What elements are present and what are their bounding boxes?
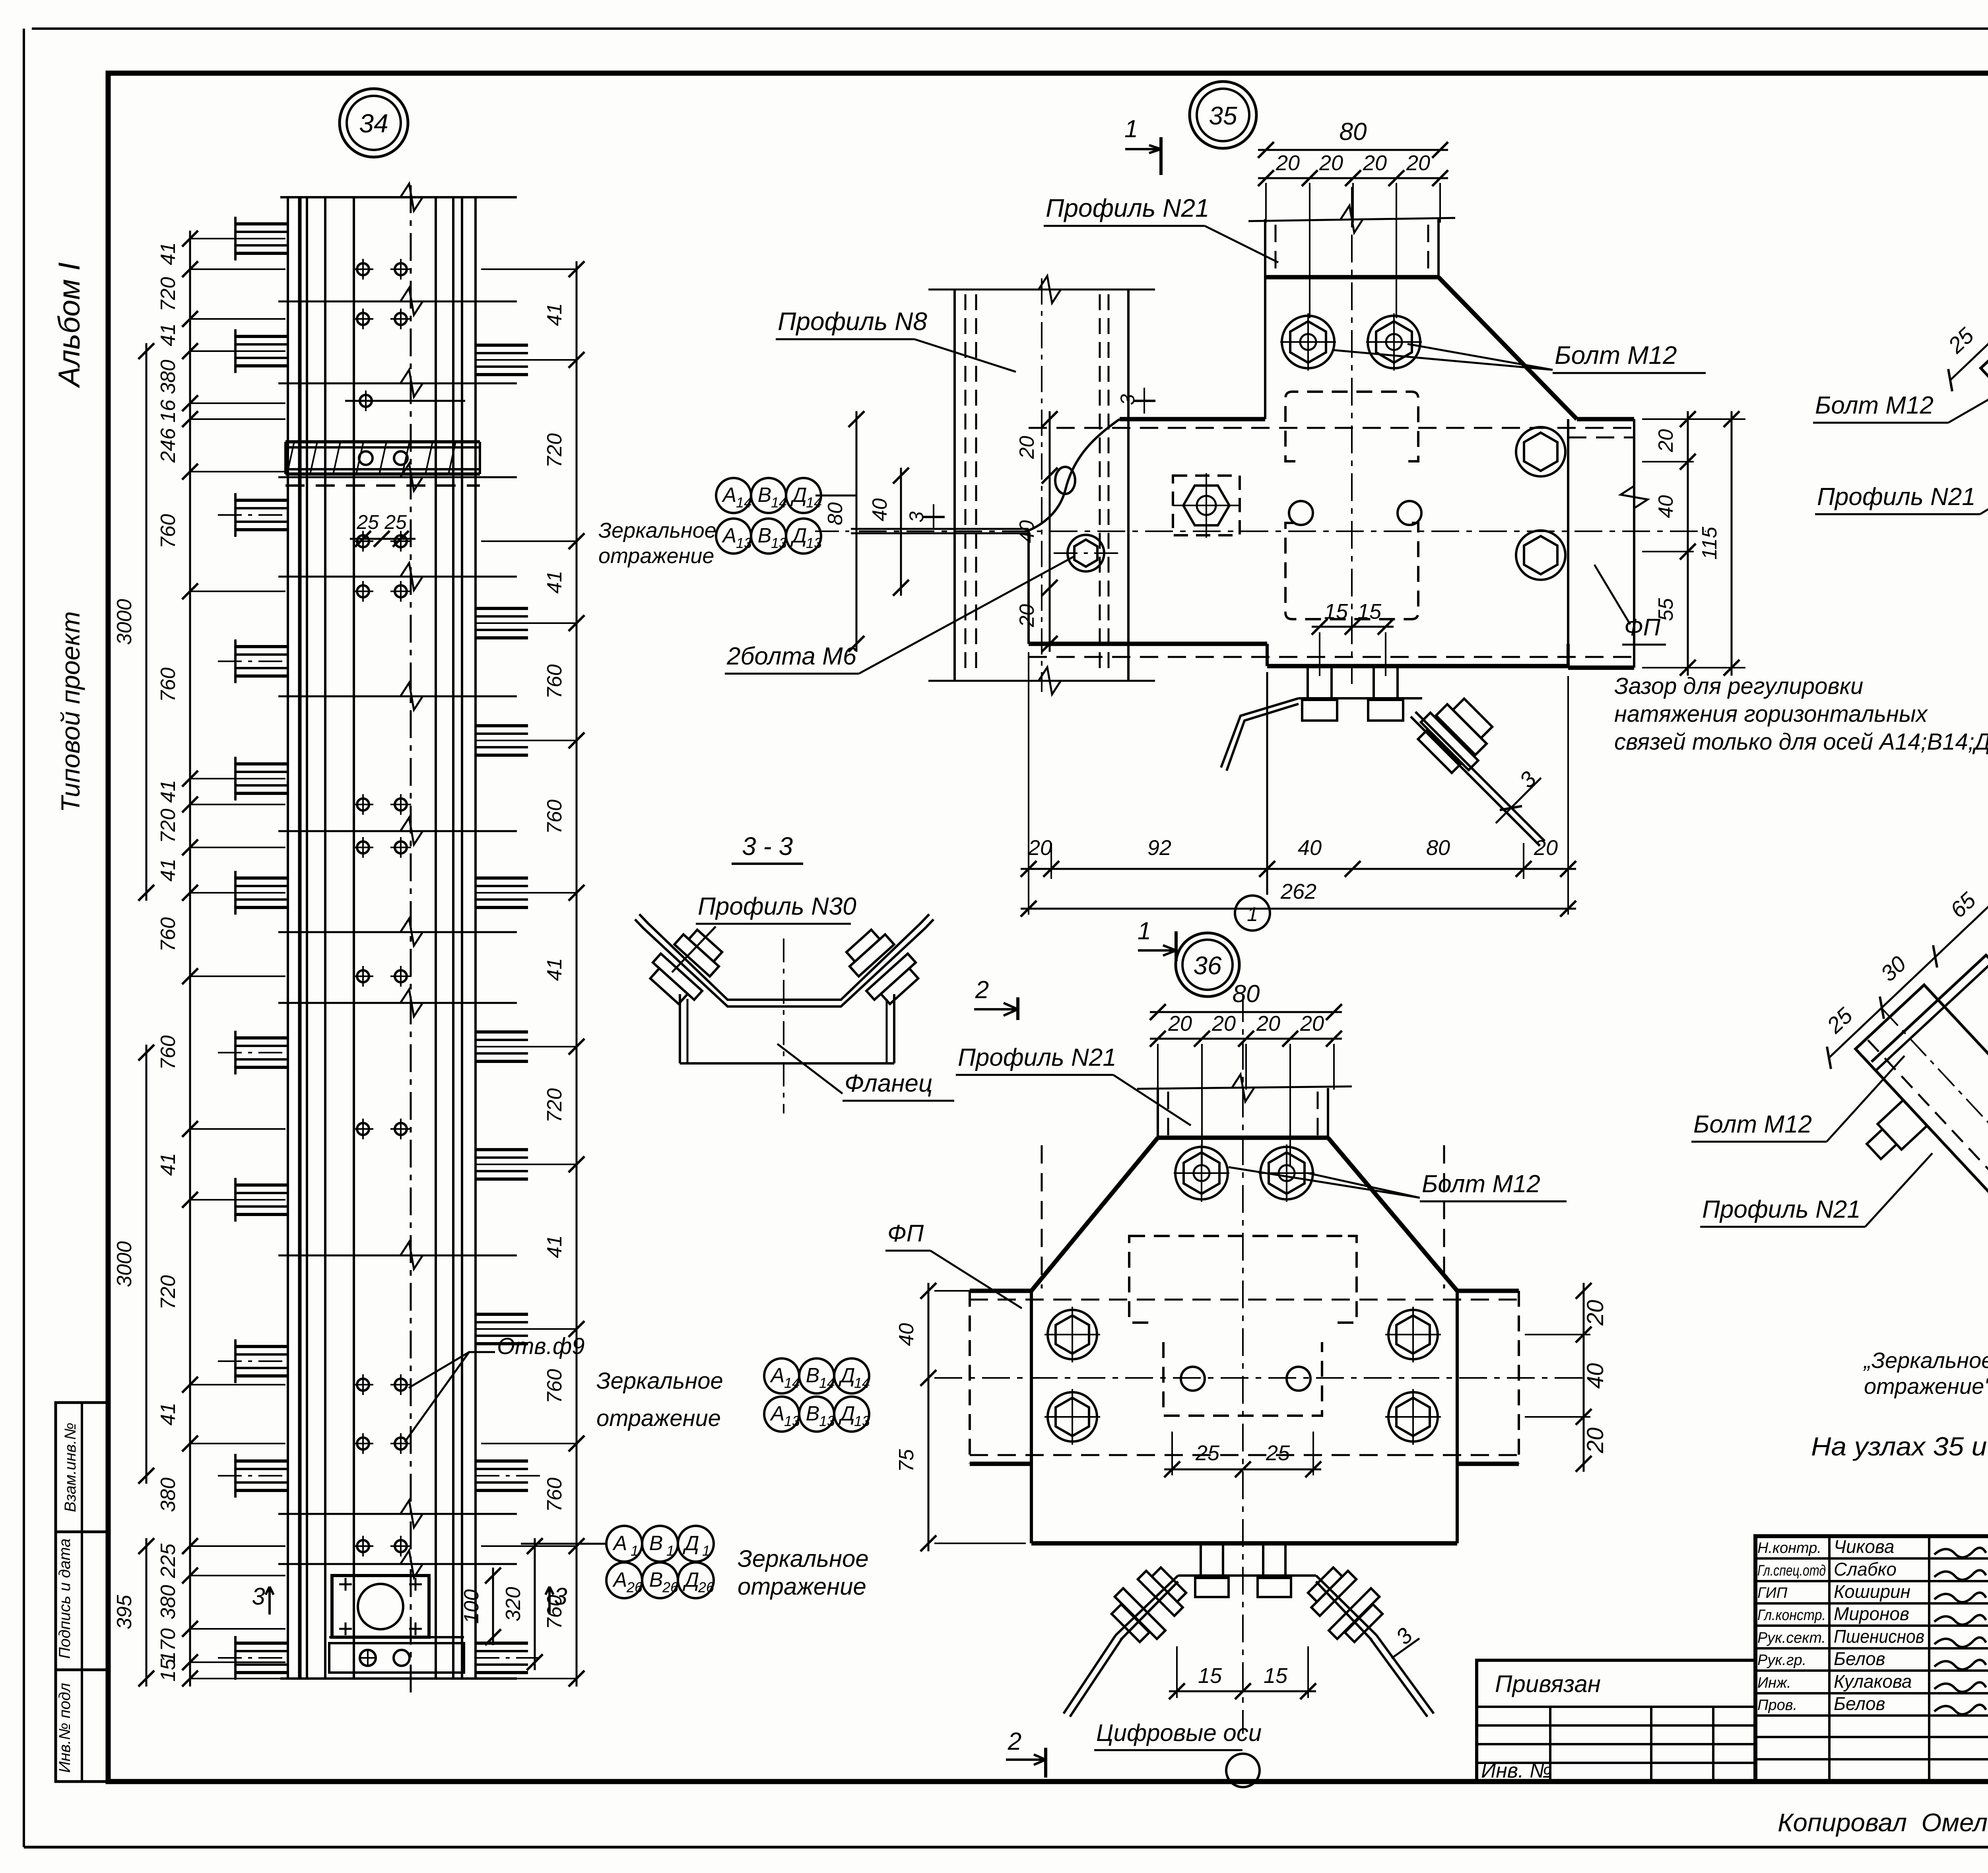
member 34 bottom fitting bbox=[329, 1643, 464, 1673]
svg-text:На узлах 35 и 36 лотки условно: На узлах 35 и 36 лотки условно не показа… bbox=[1811, 1432, 1988, 1461]
svg-text:40: 40 bbox=[868, 498, 891, 521]
svg-text:1: 1 bbox=[1247, 903, 1258, 925]
svg-text:2: 2 bbox=[975, 976, 989, 1004]
node 36 hidden dashed bbox=[970, 1299, 1519, 1301]
svg-text:Зазор для регулировки: Зазор для регулировки bbox=[1614, 673, 1863, 699]
node 35 bottom chain bbox=[1021, 868, 1576, 870]
svg-text:34: 34 bbox=[359, 109, 388, 138]
svg-text:20: 20 bbox=[1168, 1012, 1192, 1036]
svg-text:Профиль N21: Профиль N21 bbox=[1702, 1196, 1861, 1223]
svg-text:Д: Д bbox=[790, 484, 807, 507]
svg-text:1: 1 bbox=[1124, 115, 1138, 143]
left filing strip table bbox=[56, 1403, 108, 1782]
stub R@3342 bbox=[476, 1313, 528, 1316]
svg-text:760: 760 bbox=[157, 917, 180, 952]
svg-text:20: 20 bbox=[1028, 836, 1052, 860]
node 34 right dim chain C bbox=[576, 261, 578, 1686]
dim 320 / 100 bottom right of member bbox=[534, 1538, 536, 1670]
svg-text:720: 720 bbox=[543, 1088, 566, 1123]
svg-text:26: 26 bbox=[626, 1579, 643, 1595]
stub L@883 bbox=[235, 335, 288, 338]
svg-text:41: 41 bbox=[157, 1403, 180, 1426]
stub L@3017 bbox=[235, 1183, 288, 1187]
svg-text:40: 40 bbox=[1582, 1363, 1608, 1389]
svg-text:отражение: отражение bbox=[598, 544, 714, 568]
svg-text:41: 41 bbox=[157, 780, 180, 803]
svg-text:41: 41 bbox=[157, 323, 180, 346]
node 36 bottom studs strap bbox=[1200, 1543, 1202, 1576]
node 36 left chain 40/75 bbox=[928, 1283, 930, 1551]
node 35 right chains bbox=[1687, 411, 1689, 676]
svg-text:Миронов: Миронов bbox=[1834, 1603, 1909, 1624]
node 35 profile N21 top bbox=[1264, 219, 1266, 277]
svg-text:80: 80 bbox=[1426, 836, 1450, 860]
svg-text:Кулакова: Кулакова bbox=[1834, 1671, 1912, 1692]
title block bbox=[1755, 1536, 1988, 1782]
svg-text:Профиль N8: Профиль N8 bbox=[778, 307, 927, 336]
svg-text:41: 41 bbox=[543, 303, 566, 326]
node 35 bottom studs and strap bbox=[1307, 666, 1309, 700]
member 34 outline verticals bbox=[287, 197, 289, 1679]
svg-text:20: 20 bbox=[1319, 151, 1343, 175]
svg-text:Цифровые оси: Цифровые оси bbox=[1096, 1720, 1262, 1746]
U-bolt clamp on rod bbox=[1411, 689, 1502, 780]
svg-text:Профиль N30: Профиль N30 bbox=[698, 893, 856, 920]
svg-text:92: 92 bbox=[1147, 836, 1171, 860]
svg-text:Зеркальное: Зеркальное bbox=[598, 519, 716, 542]
node 35 left chains bbox=[1049, 411, 1051, 652]
svg-text:Подпись и дата: Подпись и дата bbox=[56, 1539, 74, 1659]
svg-text:связей только для осей А14;В14: связей только для осей А14;В14;Д14 bbox=[1614, 729, 1988, 755]
sec: left bend strap over diagonal profile bbox=[1872, 955, 1988, 1062]
svg-text:Типовой проект: Типовой проект bbox=[56, 611, 85, 812]
svg-text:Инж.: Инж. bbox=[1757, 1675, 1791, 1691]
node 36 dims top bbox=[1150, 1011, 1342, 1013]
svg-text:25: 25 bbox=[384, 511, 407, 533]
svg-text:41: 41 bbox=[157, 859, 180, 882]
member 34 break lines bbox=[278, 301, 517, 303]
svg-text:3: 3 bbox=[554, 1583, 567, 1610]
stub R@2632 bbox=[476, 1030, 528, 1034]
stub L@1958 bbox=[235, 762, 288, 766]
svg-text:Н.контр.: Н.контр. bbox=[1757, 1540, 1821, 1556]
svg-text:26: 26 bbox=[698, 1579, 714, 1595]
svg-text:115: 115 bbox=[1698, 526, 1721, 560]
1-1 diagonal dims 25/30/65 bbox=[1950, 196, 1988, 380]
svg-text:Гл.констр.: Гл.констр. bbox=[1757, 1607, 1826, 1624]
3-3 trough profile bbox=[635, 919, 934, 1006]
svg-text:Зеркальное: Зеркальное bbox=[738, 1545, 869, 1572]
svg-text:40: 40 bbox=[895, 1323, 918, 1346]
svg-text:Чикова: Чикова bbox=[1834, 1536, 1894, 1557]
svg-text:1: 1 bbox=[702, 1543, 710, 1559]
svg-text:26: 26 bbox=[662, 1579, 679, 1595]
stub R@905 bbox=[476, 344, 528, 347]
stub L@1295 bbox=[235, 499, 288, 502]
svg-text:13: 13 bbox=[736, 535, 752, 551]
svg-text:20: 20 bbox=[1015, 604, 1039, 628]
svg-text:отражение: отражение bbox=[738, 1573, 866, 1600]
svg-text:20: 20 bbox=[1211, 1012, 1236, 1036]
2-2 diagonal dims 25/30/65 bbox=[1829, 877, 1988, 1058]
svg-text:А: А bbox=[770, 1402, 785, 1425]
svg-text:25: 25 bbox=[1195, 1441, 1220, 1465]
svg-text:170: 170 bbox=[157, 1628, 180, 1663]
svg-text:720: 720 bbox=[157, 277, 180, 312]
svg-text:Привязан: Привязан bbox=[1495, 1671, 1601, 1697]
bolt on diagonal profile bbox=[1877, 1100, 1927, 1149]
node 34 mirror labels (A1,B1,Д1 / A26,B26,Д26) bbox=[521, 1543, 607, 1545]
svg-text:20: 20 bbox=[1363, 151, 1387, 175]
svg-text:80: 80 bbox=[824, 502, 847, 525]
svg-text:Болт М12: Болт М12 bbox=[1555, 341, 1677, 369]
svg-text:320: 320 bbox=[502, 1587, 525, 1622]
node 36 bracket outline bbox=[1158, 1136, 1328, 1140]
svg-text:А: А bbox=[612, 1532, 627, 1555]
node 35 bottom 15 15 bbox=[1312, 626, 1394, 628]
svg-text:41: 41 bbox=[543, 1235, 566, 1258]
svg-text:15: 15 bbox=[1198, 1664, 1222, 1688]
svg-text:Коширин: Коширин bbox=[1834, 1581, 1910, 1602]
stub R@1567 bbox=[476, 607, 528, 610]
ellipse hole and M6 bolt bbox=[1055, 467, 1075, 494]
svg-text:Слабко: Слабко bbox=[1834, 1559, 1897, 1580]
svg-text:Болт М12: Болт М12 bbox=[1422, 1170, 1540, 1198]
svg-text:Д: Д bbox=[790, 524, 807, 547]
stub R@1862 bbox=[476, 724, 528, 727]
node 36 dim 25 25 bbox=[1164, 1469, 1321, 1471]
member 34 centre axis bbox=[410, 185, 412, 1694]
svg-text:1: 1 bbox=[666, 1543, 674, 1559]
svg-text:отражение: отражение bbox=[596, 1405, 721, 1431]
svg-text:40: 40 bbox=[1654, 495, 1677, 518]
stub L@3423 bbox=[235, 1345, 288, 1348]
svg-text:14: 14 bbox=[771, 494, 787, 511]
svg-text:В: В bbox=[806, 1402, 820, 1425]
svg-text:„Зеркальное: „Зеркальное bbox=[1863, 1348, 1988, 1373]
svg-text:Взам.инв.№: Взам.инв.№ bbox=[62, 1422, 79, 1512]
node 36 channel dashed bbox=[1129, 1236, 1153, 1323]
3-3 flange box bbox=[679, 994, 681, 1063]
svg-text:75: 75 bbox=[895, 1449, 918, 1472]
svg-text:1: 1 bbox=[1138, 917, 1151, 945]
node 34 bubble bbox=[340, 89, 408, 157]
svg-text:41: 41 bbox=[157, 242, 180, 265]
stub L@2245 bbox=[235, 876, 288, 880]
svg-text:760: 760 bbox=[543, 800, 566, 834]
svg-text:20: 20 bbox=[1582, 1300, 1608, 1326]
svg-text:Альбом I: Альбом I bbox=[52, 262, 86, 389]
svg-text:395: 395 bbox=[113, 1595, 136, 1630]
svg-text:41: 41 bbox=[543, 571, 566, 594]
svg-text:20: 20 bbox=[1256, 1012, 1280, 1036]
svg-text:760: 760 bbox=[543, 1369, 566, 1404]
svg-text:В: В bbox=[758, 524, 772, 547]
node 35 right plate bolts bbox=[1516, 427, 1565, 476]
stub R@4169 bbox=[476, 1642, 528, 1645]
svg-text:15: 15 bbox=[1264, 1664, 1288, 1688]
svg-text:13: 13 bbox=[854, 1413, 870, 1429]
svg-text:15: 15 bbox=[1357, 600, 1382, 624]
svg-text:3: 3 bbox=[1116, 394, 1139, 405]
svg-text:Рук.сект.: Рук.сект. bbox=[1757, 1630, 1826, 1646]
svg-text:14: 14 bbox=[819, 1375, 835, 1391]
svg-text:Белов: Белов bbox=[1834, 1648, 1885, 1669]
svg-text:225: 225 bbox=[157, 1543, 180, 1579]
svg-text:262: 262 bbox=[1280, 880, 1316, 903]
svg-text:720: 720 bbox=[543, 433, 566, 468]
stub L@2647 bbox=[235, 1036, 288, 1039]
3-3 bolt assemblies bbox=[644, 922, 730, 1010]
node 36 right chain 20/40/20 bbox=[1583, 1283, 1585, 1472]
svg-text:3: 3 bbox=[252, 1583, 265, 1610]
node 35 bubble bbox=[1190, 82, 1256, 148]
svg-text:отражение": отражение" bbox=[1864, 1374, 1988, 1399]
node 35 left profile N8 bbox=[953, 289, 956, 681]
svg-text:Рук.гр.: Рук.гр. bbox=[1757, 1652, 1806, 1669]
node 36 bubble bbox=[1176, 933, 1239, 997]
svg-text:В: В bbox=[758, 484, 772, 507]
stub L@3711 bbox=[235, 1459, 288, 1463]
stub R@3711 bbox=[476, 1459, 528, 1463]
sec: diagonal profile N21 bbox=[1931, 295, 1988, 578]
svg-text:Профиль N21: Профиль N21 bbox=[958, 1044, 1116, 1071]
gap S-curve bbox=[1029, 419, 1120, 530]
svg-text:36: 36 bbox=[1193, 951, 1222, 980]
stub R@2245 bbox=[476, 876, 528, 880]
svg-text:Белов: Белов bbox=[1834, 1693, 1885, 1714]
svg-text:14: 14 bbox=[784, 1375, 800, 1391]
member 34 bottom end line bbox=[280, 1677, 517, 1680]
small table left of title block bbox=[1477, 1660, 1755, 1782]
svg-text:Пров.: Пров. bbox=[1757, 1697, 1797, 1714]
svg-text:Гл.спец.отд: Гл.спец.отд bbox=[1757, 1562, 1826, 1579]
svg-text:20: 20 bbox=[1276, 151, 1300, 175]
svg-text:40: 40 bbox=[1298, 836, 1322, 860]
diagonal tie rod bbox=[1415, 712, 1545, 841]
svg-text:А: А bbox=[612, 1568, 627, 1591]
svg-text:натяжения горизонтальных: натяжения горизонтальных bbox=[1614, 701, 1928, 727]
sheet outer border bbox=[32, 27, 1988, 30]
svg-text:20: 20 bbox=[1015, 436, 1039, 459]
svg-text:41: 41 bbox=[157, 1153, 180, 1176]
node 35 top bolts bbox=[1282, 316, 1334, 368]
svg-text:В: В bbox=[649, 1532, 663, 1555]
node 36 arm bolts bbox=[1048, 1310, 1097, 1359]
svg-text:13: 13 bbox=[806, 535, 822, 551]
svg-text:В: В bbox=[806, 1364, 820, 1387]
svg-text:А: А bbox=[770, 1364, 785, 1387]
member 34 base plate bbox=[332, 1576, 429, 1637]
node 36 axes bbox=[1242, 994, 1244, 1734]
svg-text:3000: 3000 bbox=[113, 1241, 136, 1287]
svg-text:80: 80 bbox=[1340, 118, 1367, 146]
svg-text:13: 13 bbox=[771, 535, 787, 551]
node 35 left square bolt bbox=[1173, 476, 1240, 535]
member 34 top end line bbox=[280, 196, 517, 198]
section line 1 bottom with bubble bbox=[1266, 672, 1268, 895]
svg-text:14: 14 bbox=[806, 494, 822, 511]
svg-text:40: 40 bbox=[1015, 520, 1039, 543]
svg-text:760: 760 bbox=[543, 1478, 566, 1512]
member 34 flange band bbox=[285, 440, 480, 443]
svg-text:15: 15 bbox=[157, 1658, 180, 1682]
svg-text:1: 1 bbox=[631, 1543, 639, 1559]
svg-text:25: 25 bbox=[1266, 1441, 1290, 1465]
svg-text:А: А bbox=[722, 484, 737, 507]
svg-text:Отв.ф9: Отв.ф9 bbox=[497, 1333, 585, 1359]
svg-text:380: 380 bbox=[157, 360, 180, 394]
svg-text:35: 35 bbox=[1209, 101, 1237, 130]
svg-text:20: 20 bbox=[1654, 429, 1677, 453]
node 35 dims: top 80 and 20x4 bbox=[1258, 149, 1448, 151]
stub L@4169 bbox=[235, 1642, 288, 1645]
node 36 profile N21 bbox=[1157, 1088, 1159, 1138]
svg-text:380: 380 bbox=[157, 1478, 180, 1512]
svg-text:25: 25 bbox=[356, 511, 379, 533]
node 36 dim 15 15 bbox=[1169, 1690, 1316, 1692]
svg-text:15: 15 bbox=[1324, 600, 1348, 624]
member 34 hole rows bbox=[357, 263, 369, 275]
svg-text:Д: Д bbox=[839, 1402, 855, 1425]
node 36 small holes bbox=[1181, 1367, 1205, 1391]
thin tie plate into profile bbox=[851, 528, 1029, 530]
node 34 left dim chain A bbox=[189, 231, 191, 1686]
svg-text:13: 13 bbox=[819, 1413, 835, 1429]
svg-text:720: 720 bbox=[157, 1275, 180, 1310]
svg-text:720: 720 bbox=[157, 809, 180, 843]
node 35 bracket outline bbox=[1265, 275, 1439, 280]
svg-text:20: 20 bbox=[1582, 1428, 1608, 1454]
svg-text:760: 760 bbox=[543, 664, 566, 699]
svg-text:41: 41 bbox=[543, 958, 566, 981]
stub L@600 bbox=[235, 222, 288, 225]
svg-text:760: 760 bbox=[157, 1036, 180, 1070]
svg-text:13: 13 bbox=[784, 1413, 800, 1429]
svg-text:80: 80 bbox=[1233, 980, 1260, 1008]
svg-text:760: 760 bbox=[157, 668, 180, 702]
node 35 centre axes bbox=[1351, 187, 1353, 684]
svg-text:Болт М12: Болт М12 bbox=[1815, 392, 1934, 419]
svg-text:3 - 3: 3 - 3 bbox=[742, 832, 793, 861]
svg-text:Инв. №: Инв. № bbox=[1481, 1759, 1552, 1782]
svg-text:Пшениснов: Пшениснов bbox=[1834, 1626, 1924, 1647]
svg-text:ГИП: ГИП bbox=[1757, 1585, 1788, 1601]
svg-text:2: 2 bbox=[1008, 1728, 1021, 1755]
node 35 hidden dashed lines bbox=[1029, 427, 1634, 429]
svg-text:Фланец: Фланец bbox=[845, 1070, 932, 1097]
svg-text:380: 380 bbox=[157, 1585, 180, 1620]
stub R@2928 bbox=[476, 1148, 528, 1151]
svg-text:Профиль N21: Профиль N21 bbox=[1817, 483, 1976, 511]
svg-text:Д: Д bbox=[839, 1364, 855, 1387]
svg-text:20: 20 bbox=[1406, 151, 1430, 175]
node 35 small holes bbox=[1289, 501, 1313, 525]
svg-text:Инв.№ подл: Инв.№ подл bbox=[56, 1683, 74, 1773]
svg-text:20: 20 bbox=[1300, 1012, 1324, 1036]
svg-text:100: 100 bbox=[460, 1589, 483, 1624]
svg-text:14: 14 bbox=[736, 494, 752, 511]
node 35 channel dashed sections bbox=[1285, 392, 1418, 461]
svg-text:16: 16 bbox=[157, 400, 180, 423]
svg-text:3000: 3000 bbox=[113, 599, 136, 645]
stub L@1663 bbox=[235, 645, 288, 648]
svg-text:Болт М12: Болт М12 bbox=[1693, 1111, 1812, 1138]
svg-text:2болта М6: 2болта М6 bbox=[726, 643, 857, 670]
node 36 top bolts bbox=[1175, 1147, 1228, 1199]
svg-text:Д: Д bbox=[683, 1532, 699, 1555]
svg-text:Д: Д bbox=[683, 1568, 699, 1591]
svg-text:246: 246 bbox=[157, 428, 180, 463]
svg-text:14: 14 bbox=[854, 1375, 870, 1391]
svg-text:760: 760 bbox=[157, 514, 180, 549]
node 34 left dim chain B (3000/395) bbox=[146, 343, 148, 901]
svg-text:В: В bbox=[649, 1568, 663, 1591]
svg-text:ФП: ФП bbox=[1624, 614, 1661, 641]
svg-text:Зеркальное: Зеркальное bbox=[596, 1368, 723, 1394]
svg-text:Копировал Омельченко: Копировал Омельченко bbox=[1778, 1808, 1988, 1837]
svg-text:ФП: ФП bbox=[887, 1220, 924, 1247]
svg-text:20: 20 bbox=[1534, 836, 1558, 860]
sec: diagonal profile N21 bbox=[1806, 976, 1988, 1259]
svg-text:Профиль N21: Профиль N21 bbox=[1046, 194, 1209, 222]
svg-text:А: А bbox=[722, 524, 737, 547]
